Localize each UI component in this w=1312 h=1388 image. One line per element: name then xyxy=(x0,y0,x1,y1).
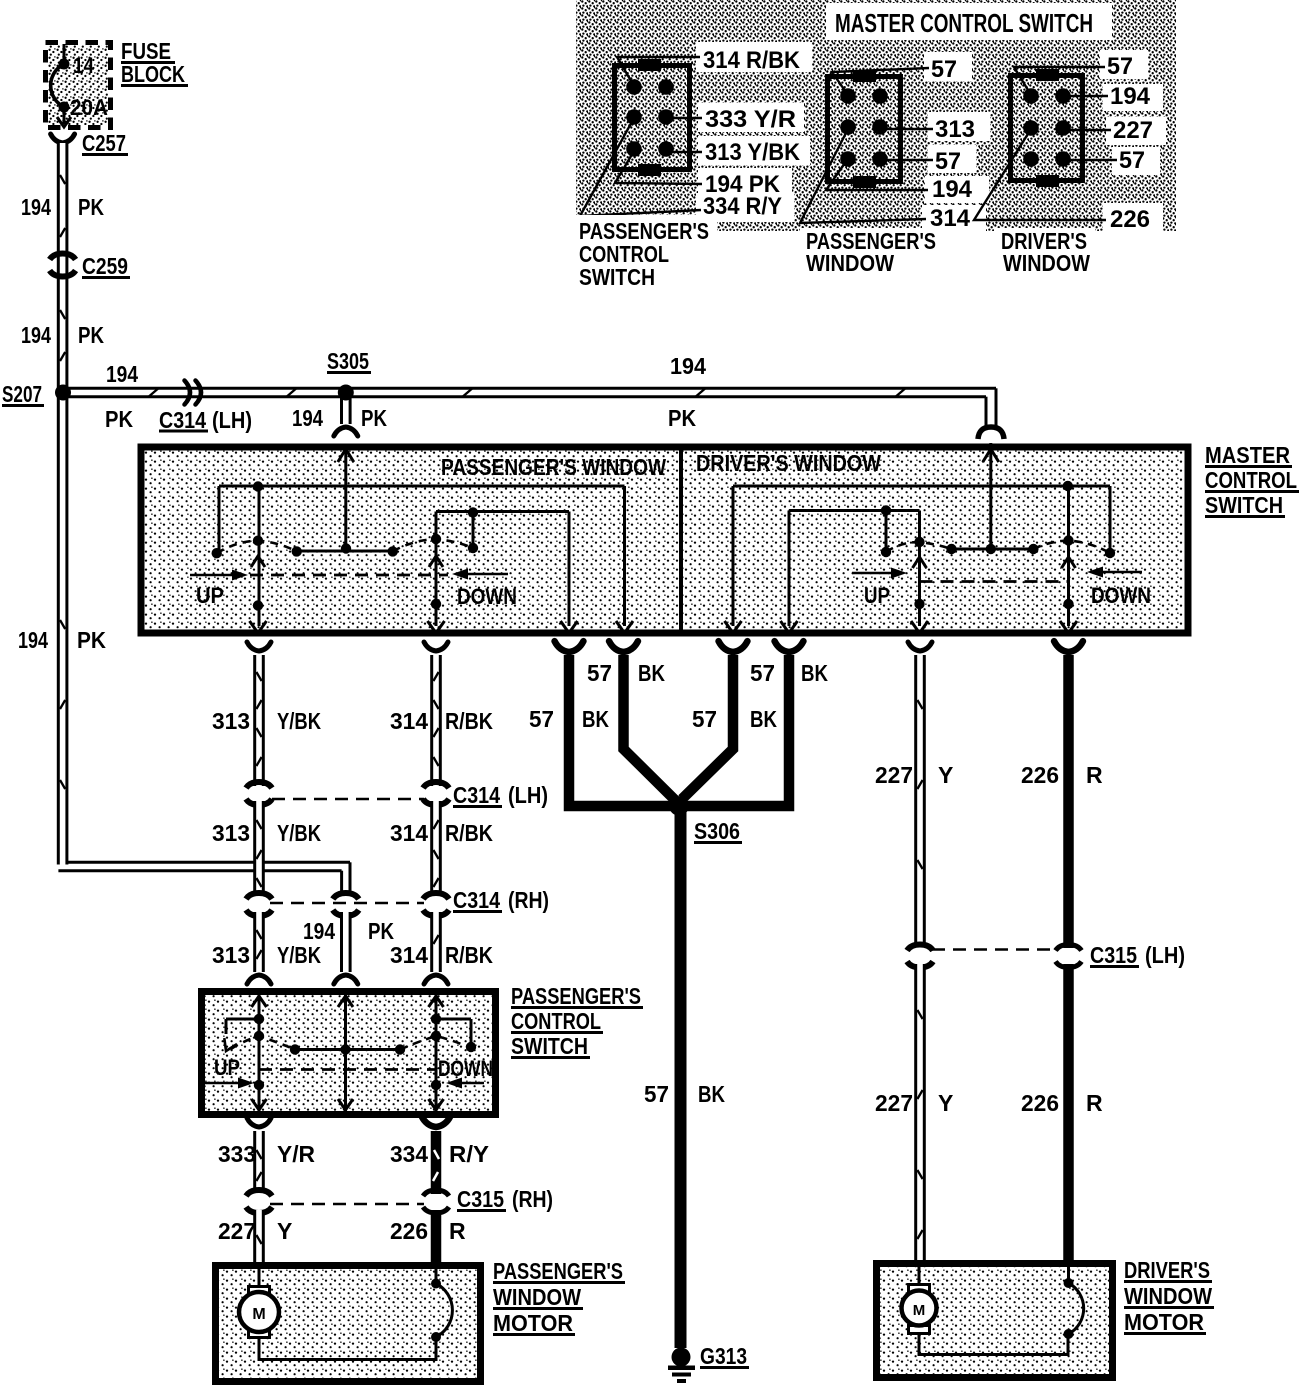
wire 227 Y C315 (RH) to passenger's window motor xyxy=(218,1210,292,1266)
svg-text:S207: S207 xyxy=(2,381,42,407)
driver switch output arrows at box bottom xyxy=(725,621,1078,633)
wire 226 R master switch to C315 (LH) xyxy=(1021,641,1103,948)
connector view: passenger's window (6 pins) xyxy=(828,70,901,188)
svg-text:PASSENGER'S WINDOW: PASSENGER'S WINDOW xyxy=(441,454,666,480)
wire 57 BK (passenger switch left) to S306 xyxy=(529,641,673,806)
pin label 57 (passenger's window mid) xyxy=(886,145,976,175)
svg-text:CONTROL: CONTROL xyxy=(1205,467,1297,493)
connector C314 (LH) xyxy=(246,782,548,808)
svg-text:BK: BK xyxy=(801,660,828,686)
ground G313 xyxy=(668,1343,749,1383)
pin label 57 (driver's window mid) xyxy=(1069,147,1160,175)
svg-text:194: 194 xyxy=(21,194,51,220)
driver window switch wiring (master switch) xyxy=(733,443,1110,626)
svg-text:G313: G313 xyxy=(700,1343,747,1369)
wire 333 Y/R passenger control switch to C315 (RH) xyxy=(218,1118,315,1193)
pin label 194 (driver's window) xyxy=(1069,83,1163,111)
svg-text:R: R xyxy=(449,1218,466,1244)
wire 57 BK (passenger switch right) to S306 xyxy=(587,641,676,801)
passenger motor internal circuit xyxy=(259,1269,452,1360)
svg-text:UP: UP xyxy=(196,583,224,608)
svg-text:BLOCK: BLOCK xyxy=(121,61,185,87)
passenger control switch wiring xyxy=(226,995,471,1111)
svg-text:194: 194 xyxy=(18,627,48,653)
svg-text:PK: PK xyxy=(668,405,696,431)
wire 334 R/Y passenger control switch to C315 (RH) xyxy=(390,1116,489,1194)
svg-text:Y/BK: Y/BK xyxy=(277,708,321,734)
svg-text:194: 194 xyxy=(1110,83,1151,110)
wire 226 R C315 (LH) to driver's window motor xyxy=(1021,964,1103,1262)
svg-text:333 Y/R: 333 Y/R xyxy=(705,106,796,133)
svg-text:227: 227 xyxy=(218,1218,256,1244)
svg-text:313: 313 xyxy=(212,820,250,846)
svg-text:R/BK: R/BK xyxy=(445,708,493,734)
connector view: passenger's control switch (6 pins) xyxy=(615,59,690,176)
svg-text:57: 57 xyxy=(1119,147,1145,174)
wire 226 R C315 (RH) to passenger's window motor xyxy=(390,1210,466,1264)
fuse F14 20A xyxy=(51,44,108,127)
wire 314 R/BK master switch to C314 (LH) xyxy=(390,642,493,786)
svg-text:PASSENGER'S: PASSENGER'S xyxy=(493,1258,623,1284)
svg-text:Y: Y xyxy=(277,1218,292,1244)
connector C314 (RH) xyxy=(246,887,549,916)
wire 227 Y master switch to C315 (LH) xyxy=(875,642,953,947)
passenger control switch contacts and wiper xyxy=(220,1014,477,1090)
motor M (driver) xyxy=(902,1267,937,1334)
wire 57 BK S306 to G313 xyxy=(644,806,725,1348)
svg-text:PK: PK xyxy=(78,322,104,348)
svg-text:BK: BK xyxy=(582,706,609,732)
splice S306 xyxy=(669,796,742,844)
pin label 227 xyxy=(1069,117,1166,145)
svg-text:DOWN: DOWN xyxy=(1091,583,1151,608)
svg-text:194: 194 xyxy=(670,353,706,379)
svg-text:(LH): (LH) xyxy=(212,407,252,433)
svg-text:Y: Y xyxy=(938,762,953,788)
svg-text:S305: S305 xyxy=(327,348,369,374)
svg-text:57: 57 xyxy=(529,706,554,732)
pin label 313 Y/BK xyxy=(668,136,810,166)
svg-text:C257: C257 xyxy=(82,130,126,156)
wire 314 R/BK C314 (LH) to C314 (RH) xyxy=(390,801,493,896)
svg-text:PK: PK xyxy=(77,627,106,653)
svg-text:DOWN: DOWN xyxy=(457,584,517,609)
master control switch box xyxy=(141,447,1188,633)
svg-text:UP: UP xyxy=(864,583,890,608)
pin label 57 (passenger's window top) xyxy=(832,52,972,95)
svg-text:R/BK: R/BK xyxy=(445,942,493,968)
splice S207 xyxy=(2,381,71,407)
wire 194 PK C314 (RH) to passenger control switch xyxy=(303,912,394,984)
wire 194 PK S207 to S305 xyxy=(63,361,346,432)
svg-text:BK: BK xyxy=(638,660,665,686)
svg-text:C315: C315 xyxy=(457,1186,504,1212)
svg-text:226: 226 xyxy=(1021,1090,1059,1116)
svg-text:DOWN: DOWN xyxy=(438,1056,493,1081)
wire 194 PK fuse block to S207 xyxy=(21,143,104,390)
connector view: driver's window (6 pins) xyxy=(1011,69,1083,187)
label MASTER CONTROL SWITCH (panel title) xyxy=(826,3,1112,40)
driver's window motor box xyxy=(877,1264,1113,1378)
svg-text:WINDOW: WINDOW xyxy=(806,250,894,276)
svg-text:CONTROL: CONTROL xyxy=(511,1008,601,1034)
svg-text:WINDOW: WINDOW xyxy=(1124,1283,1212,1309)
svg-text:226: 226 xyxy=(1021,762,1059,788)
pin label 226 xyxy=(974,129,1163,233)
svg-text:(RH): (RH) xyxy=(508,887,549,913)
svg-text:M: M xyxy=(252,1306,265,1323)
connector C315 (RH) xyxy=(246,1186,553,1213)
svg-text:227: 227 xyxy=(1113,117,1153,144)
wire 227 Y C315 (LH) to driver's window motor xyxy=(875,964,953,1264)
svg-text:(LH): (LH) xyxy=(1145,942,1185,968)
svg-text:PK: PK xyxy=(368,918,394,944)
svg-text:BK: BK xyxy=(698,1081,725,1107)
svg-text:334: 334 xyxy=(390,1141,428,1167)
passenger switch feed arrow (194) xyxy=(338,449,354,462)
svg-text:WINDOW: WINDOW xyxy=(493,1284,581,1310)
svg-text:313: 313 xyxy=(935,116,975,143)
connector C259 xyxy=(50,253,130,279)
svg-text:226: 226 xyxy=(390,1218,428,1244)
driver switch UP/DOWN arrows xyxy=(852,567,1151,609)
svg-text:R/BK: R/BK xyxy=(445,820,493,846)
svg-text:194: 194 xyxy=(303,918,335,944)
svg-text:SWITCH: SWITCH xyxy=(579,264,655,290)
wire 313 Y/BK C314 (LH) to C314 (RH) xyxy=(212,801,321,896)
svg-text:(LH): (LH) xyxy=(508,782,548,808)
label PASSENGER'S WINDOW MOTOR xyxy=(493,1258,625,1336)
label FUSE BLOCK xyxy=(121,38,188,87)
wire 57 BK (driver switch right) to S306 xyxy=(685,641,828,806)
svg-text:227: 227 xyxy=(875,1090,913,1116)
svg-text:226: 226 xyxy=(1110,206,1150,233)
label PASSENGER'S CONTROL SWITCH (connector view) xyxy=(574,215,717,290)
svg-text:R/Y: R/Y xyxy=(449,1141,489,1167)
svg-text:57: 57 xyxy=(931,56,957,83)
driver switch contacts and wiper xyxy=(881,481,1115,609)
svg-text:314: 314 xyxy=(930,205,971,232)
wire 57 BK (driver switch left) to S306 xyxy=(682,641,777,799)
svg-text:BK: BK xyxy=(750,706,777,732)
passenger control switch arrows xyxy=(202,996,493,1110)
wire 313 Y/BK master switch to C314 (LH) xyxy=(212,642,321,786)
label DRIVER'S WINDOW MOTOR xyxy=(1124,1257,1214,1335)
svg-text:DRIVER'S: DRIVER'S xyxy=(1124,1257,1210,1283)
svg-text:C314: C314 xyxy=(453,782,500,808)
svg-text:MOTOR: MOTOR xyxy=(1124,1309,1204,1335)
label DRIVER'S WINDOW (section title) xyxy=(696,450,881,476)
svg-text:C315: C315 xyxy=(1090,942,1137,968)
svg-text:SWITCH: SWITCH xyxy=(1205,492,1283,518)
svg-text:57: 57 xyxy=(587,660,612,686)
svg-text:PASSENGER'S: PASSENGER'S xyxy=(511,983,641,1009)
svg-text:14: 14 xyxy=(73,53,95,78)
svg-text:C314: C314 xyxy=(159,407,206,433)
svg-text:313: 313 xyxy=(212,942,250,968)
svg-text:DRIVER'S WINDOW: DRIVER'S WINDOW xyxy=(696,450,881,476)
passenger window switch wiring (master switch) xyxy=(219,446,625,626)
pin label 194 PK xyxy=(615,151,792,198)
svg-text:194: 194 xyxy=(21,322,51,348)
pin label 194 (passenger's window) xyxy=(826,160,989,203)
svg-text:194: 194 xyxy=(932,176,973,203)
passenger's control switch box xyxy=(202,992,496,1115)
svg-text:MASTER: MASTER xyxy=(1205,442,1290,468)
passenger switch contacts and wiper xyxy=(212,481,479,610)
svg-text:C259: C259 xyxy=(82,253,128,279)
wire 314 R/BK C314 (RH) to passenger control switch xyxy=(390,912,493,984)
svg-text:194: 194 xyxy=(106,361,138,387)
passenger's window motor box xyxy=(216,1266,481,1382)
passenger switch output arrows at box bottom xyxy=(250,621,634,633)
motor M (passenger) xyxy=(239,1269,279,1338)
svg-text:UP: UP xyxy=(214,1055,240,1080)
label PASSENGER'S CONTROL SWITCH xyxy=(511,983,643,1059)
svg-text:194: 194 xyxy=(292,405,323,431)
svg-text:PK: PK xyxy=(361,405,387,431)
pin label 57 (driver's window top) xyxy=(1014,50,1148,95)
svg-text:Y/BK: Y/BK xyxy=(277,942,321,968)
connector C314 (LH) inline on 194 wire xyxy=(159,381,252,434)
svg-text:227: 227 xyxy=(875,762,913,788)
svg-text:Y: Y xyxy=(938,1090,953,1116)
svg-text:314 R/BK: 314 R/BK xyxy=(703,47,801,74)
pin label 313 xyxy=(886,112,990,143)
wire 194 PK S207 down-leg to C314 (RH) xyxy=(18,396,350,896)
label PASSENGER'S WINDOW (connector view) xyxy=(800,228,946,276)
wire 194 PK S305 branch down to master switch xyxy=(292,396,387,436)
svg-text:57: 57 xyxy=(644,1081,669,1107)
label PASSENGER'S WINDOW (section title) xyxy=(441,454,666,480)
svg-text:MASTER CONTROL SWITCH: MASTER CONTROL SWITCH xyxy=(835,8,1093,38)
fuse block xyxy=(46,43,111,128)
svg-text:M: M xyxy=(913,1302,926,1319)
svg-text:Y/R: Y/R xyxy=(277,1141,315,1167)
pin label 334 R/Y xyxy=(580,118,794,222)
pin label 314 (passenger's window) xyxy=(800,129,986,232)
svg-text:333: 333 xyxy=(218,1141,256,1167)
svg-text:C314: C314 xyxy=(453,887,500,913)
svg-text:R: R xyxy=(1086,762,1103,788)
svg-text:Y/BK: Y/BK xyxy=(277,820,321,846)
svg-text:WINDOW: WINDOW xyxy=(1003,250,1090,276)
svg-text:20A: 20A xyxy=(70,95,108,120)
svg-text:57: 57 xyxy=(692,706,717,732)
wire 313 Y/BK C314 (RH) to passenger control switch xyxy=(212,912,321,984)
svg-text:57: 57 xyxy=(935,148,961,175)
pin label 333 Y/R xyxy=(668,103,804,133)
svg-text:SWITCH: SWITCH xyxy=(511,1033,588,1059)
svg-text:57: 57 xyxy=(750,660,775,686)
connector C315 (LH) xyxy=(907,942,1185,968)
svg-text:57: 57 xyxy=(1107,53,1133,80)
svg-text:S306: S306 xyxy=(694,818,740,844)
passenger switch UP/DOWN arrows xyxy=(190,569,517,610)
svg-text:313: 313 xyxy=(212,708,250,734)
label MASTER CONTROL SWITCH xyxy=(1205,442,1299,518)
svg-text:(RH): (RH) xyxy=(512,1186,553,1212)
svg-text:R: R xyxy=(1086,1090,1103,1116)
connector C257 xyxy=(51,130,128,156)
svg-text:PK: PK xyxy=(78,194,104,220)
pin label 314 R/BK xyxy=(617,42,812,86)
svg-text:MOTOR: MOTOR xyxy=(493,1310,573,1336)
splice S305 xyxy=(327,348,371,401)
label DRIVER'S WINDOW (connector view) xyxy=(995,228,1095,276)
driver motor internal circuit xyxy=(919,1267,1084,1355)
svg-text:314: 314 xyxy=(390,820,428,846)
driver switch feed arrow (194) xyxy=(983,449,999,462)
svg-text:313 Y/BK: 313 Y/BK xyxy=(705,139,801,166)
svg-text:314: 314 xyxy=(390,942,428,968)
wire 194 PK S305 to driver section of master switch xyxy=(346,353,1004,439)
svg-text:PK: PK xyxy=(105,406,133,432)
svg-text:314: 314 xyxy=(390,708,428,734)
master control switch connector view panel xyxy=(576,0,1176,231)
